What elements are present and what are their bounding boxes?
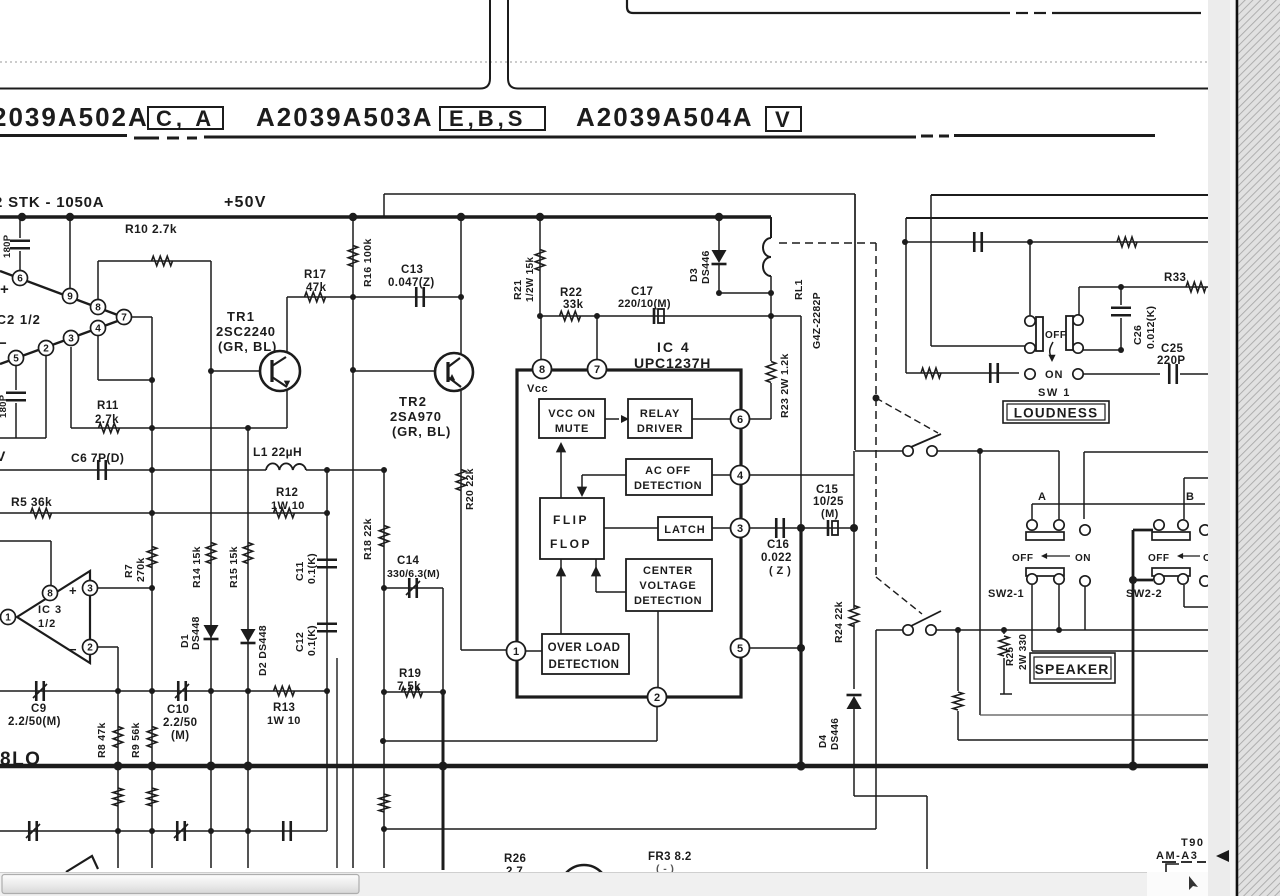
svg-text:10/25: 10/25 <box>813 496 844 508</box>
svg-text:8: 8 <box>95 303 101 314</box>
svg-text:4: 4 <box>737 470 744 482</box>
svg-text:3: 3 <box>737 523 743 535</box>
svg-text:47k: 47k <box>306 282 327 294</box>
svg-text:R14 15k: R14 15k <box>191 546 203 588</box>
svg-text:OVER LOAD: OVER LOAD <box>548 642 621 654</box>
svg-text:C9: C9 <box>31 703 47 715</box>
svg-text:B: B <box>1186 491 1194 503</box>
svg-text:0.022: 0.022 <box>761 552 792 564</box>
svg-text:C15: C15 <box>816 484 839 496</box>
svg-text:DETECTION: DETECTION <box>634 480 702 492</box>
svg-text:A2039A504A: A2039A504A <box>576 102 754 132</box>
svg-text:DETECTION: DETECTION <box>634 595 702 607</box>
svg-text:R15 15k: R15 15k <box>228 546 240 588</box>
svg-text:(GR, BL): (GR, BL) <box>392 424 451 439</box>
svg-text:V: V <box>775 107 790 132</box>
svg-text:C12: C12 <box>294 632 306 652</box>
svg-text:V: V <box>0 448 6 464</box>
svg-text:2 STK - 1050A: 2 STK - 1050A <box>0 194 104 211</box>
svg-text:2: 2 <box>87 643 93 654</box>
svg-text:RL1: RL1 <box>793 279 805 300</box>
svg-text:R33: R33 <box>1164 272 1186 284</box>
svg-text:2SA970: 2SA970 <box>390 409 442 424</box>
svg-text:C, A: C, A <box>156 106 215 131</box>
svg-text:CENTER: CENTER <box>643 565 693 577</box>
svg-text:TR1: TR1 <box>227 309 255 324</box>
svg-text:D4: D4 <box>818 734 829 748</box>
svg-text:OFF: OFF <box>1148 553 1170 564</box>
svg-text:IC 3: IC 3 <box>38 604 62 616</box>
svg-text:C13: C13 <box>401 264 423 276</box>
svg-text:R17: R17 <box>304 269 326 281</box>
svg-text:OFF: OFF <box>1045 330 1067 341</box>
svg-text:FLOP: FLOP <box>550 537 592 551</box>
svg-text:D2 DS448: D2 DS448 <box>257 625 269 676</box>
svg-text:6: 6 <box>17 274 23 285</box>
svg-text:MUTE: MUTE <box>555 423 589 435</box>
svg-text:3: 3 <box>87 584 93 595</box>
svg-text:0.012(K): 0.012(K) <box>1145 306 1157 349</box>
svg-text:1: 1 <box>5 613 11 624</box>
svg-text:−: − <box>69 642 77 657</box>
svg-text:Vcc: Vcc <box>527 383 548 395</box>
svg-text:OFF: OFF <box>1012 553 1034 564</box>
svg-text:220P: 220P <box>1157 355 1185 367</box>
svg-text:R23 2W 1.2k: R23 2W 1.2k <box>779 353 791 418</box>
svg-text:R10 2.7k: R10 2.7k <box>125 222 177 236</box>
svg-text:7: 7 <box>594 364 600 376</box>
svg-text:T90: T90 <box>1181 837 1204 849</box>
svg-text:C14: C14 <box>397 555 420 567</box>
svg-text:C17: C17 <box>631 286 653 298</box>
svg-text:(M): (M) <box>821 508 839 520</box>
svg-text:7.5k: 7.5k <box>397 681 421 693</box>
svg-text:SW2-2: SW2-2 <box>1126 588 1162 600</box>
svg-text:5: 5 <box>13 354 19 365</box>
svg-text:2SC2240: 2SC2240 <box>216 324 276 339</box>
svg-text:DS448: DS448 <box>190 616 202 650</box>
svg-text:R8 47k: R8 47k <box>96 722 108 758</box>
svg-text:0.1(K): 0.1(K) <box>306 553 318 584</box>
svg-text:SW 1: SW 1 <box>1038 387 1071 399</box>
svg-text:2.2/50(M): 2.2/50(M) <box>8 716 61 728</box>
svg-text:C10: C10 <box>167 704 189 716</box>
svg-text:A: A <box>1038 491 1046 503</box>
svg-text:R13: R13 <box>273 702 295 714</box>
svg-text:270k: 270k <box>135 557 147 582</box>
svg-text:2.2/50: 2.2/50 <box>163 717 197 729</box>
svg-text:2039A502A: 2039A502A <box>0 102 149 132</box>
svg-text:ON: ON <box>1045 369 1064 381</box>
svg-text:−: − <box>0 335 7 352</box>
svg-text:VCC ON: VCC ON <box>548 408 596 420</box>
svg-text:VOLTAGE: VOLTAGE <box>639 580 696 592</box>
svg-text:R11: R11 <box>97 400 119 412</box>
svg-text:2.7k: 2.7k <box>95 414 119 426</box>
svg-text:2: 2 <box>654 692 660 704</box>
svg-text:1/2W 15k: 1/2W 15k <box>525 257 536 302</box>
svg-text:IC 4: IC 4 <box>657 339 691 355</box>
svg-text:+: + <box>69 583 77 598</box>
svg-text:8: 8 <box>47 589 53 600</box>
svg-text:5: 5 <box>737 643 743 655</box>
svg-text:1W 10: 1W 10 <box>267 715 301 727</box>
svg-text:+50V: +50V <box>224 194 267 211</box>
svg-text:C6 7P(D): C6 7P(D) <box>71 451 124 465</box>
svg-text:FR3 8.2: FR3 8.2 <box>648 851 692 863</box>
svg-text:R26: R26 <box>504 853 526 865</box>
svg-text:( Z ): ( Z ) <box>769 565 791 577</box>
svg-text:D3: D3 <box>688 268 700 282</box>
svg-text:AM-A3: AM-A3 <box>1156 850 1198 862</box>
svg-text:L1 22µH: L1 22µH <box>253 445 302 459</box>
svg-text:C26: C26 <box>1132 325 1144 345</box>
svg-text:R20 22k: R20 22k <box>464 468 476 510</box>
svg-text:DETECTION: DETECTION <box>549 659 620 671</box>
svg-text:1: 1 <box>513 646 519 658</box>
svg-text:TR2: TR2 <box>399 394 427 409</box>
svg-text:R19: R19 <box>399 668 421 680</box>
svg-text:1/2: 1/2 <box>38 618 56 630</box>
svg-text:2: 2 <box>43 344 49 355</box>
svg-text:180P: 180P <box>2 234 13 258</box>
svg-text:R7: R7 <box>123 564 135 578</box>
svg-text:R21: R21 <box>512 280 524 300</box>
svg-text:6: 6 <box>737 414 743 426</box>
svg-text:DRIVER: DRIVER <box>637 423 683 435</box>
svg-text:R12: R12 <box>276 487 298 499</box>
svg-text:4: 4 <box>95 324 101 335</box>
svg-text:1W 10: 1W 10 <box>271 500 305 512</box>
svg-text:3: 3 <box>68 334 74 345</box>
svg-text:180P: 180P <box>0 394 9 418</box>
svg-text:A2039A503A: A2039A503A <box>256 102 434 132</box>
svg-text:(GR, BL): (GR, BL) <box>218 339 277 354</box>
svg-text:R5 36k: R5 36k <box>11 495 52 509</box>
svg-text:C11: C11 <box>294 561 306 581</box>
svg-text:ON: ON <box>1075 553 1091 564</box>
svg-text:R16 100k: R16 100k <box>362 238 374 287</box>
svg-text:IC2 1/2: IC2 1/2 <box>0 312 41 327</box>
svg-text:C25: C25 <box>1161 343 1184 355</box>
svg-text:330/6.3(M): 330/6.3(M) <box>387 568 440 580</box>
svg-text:DS446: DS446 <box>700 250 712 284</box>
svg-text:DS446: DS446 <box>830 718 841 750</box>
svg-text:R18 22k: R18 22k <box>362 518 374 560</box>
svg-text:2W 330: 2W 330 <box>1018 634 1029 670</box>
svg-text:AC OFF: AC OFF <box>645 465 691 477</box>
svg-text:R24 22k: R24 22k <box>833 601 845 643</box>
svg-text:7: 7 <box>121 313 127 324</box>
svg-text:0.047(Z): 0.047(Z) <box>388 277 435 289</box>
svg-text:(M): (M) <box>171 730 189 742</box>
svg-text:+: + <box>0 281 9 298</box>
svg-text:0.1(K): 0.1(K) <box>306 625 318 656</box>
svg-text:SW2-1: SW2-1 <box>988 588 1024 600</box>
svg-text:33k: 33k <box>563 299 584 311</box>
svg-text:G4Z-2282P: G4Z-2282P <box>811 292 823 349</box>
svg-text:R9 56k: R9 56k <box>130 722 142 758</box>
svg-text:9: 9 <box>67 292 73 303</box>
svg-text:LATCH: LATCH <box>664 524 705 536</box>
svg-text:8: 8 <box>539 364 545 376</box>
svg-text:RELAY: RELAY <box>640 408 680 420</box>
svg-text:E,B,S: E,B,S <box>449 106 526 131</box>
svg-text:SPEAKER: SPEAKER <box>1035 661 1110 677</box>
svg-text:R25: R25 <box>1005 647 1016 666</box>
svg-text:C16: C16 <box>767 539 789 551</box>
svg-text:FLIP: FLIP <box>553 513 589 527</box>
svg-text:R22: R22 <box>560 287 582 299</box>
svg-text:LOUDNESS: LOUDNESS <box>1014 406 1099 421</box>
